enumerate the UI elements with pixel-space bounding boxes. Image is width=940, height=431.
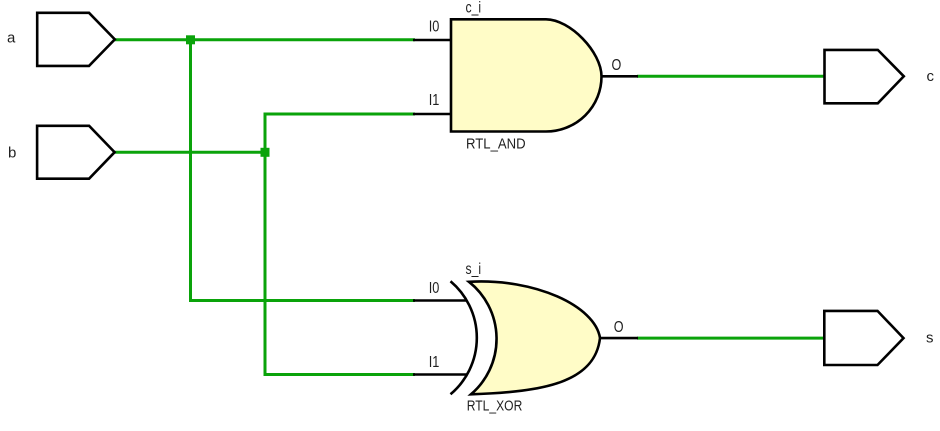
svg-text:a: a [7,30,16,47]
XOR gate s_i input arc [451,281,477,394]
svg-text:s_i: s_i [466,261,482,278]
svg-text:I0: I0 [429,280,440,297]
AND gate c_i pin stub O [601,75,638,78]
wire a to AND I0 [114,38,415,41]
AND gate c_i body [451,19,602,131]
svg-text:I1: I1 [429,92,440,109]
svg-text:O: O [612,57,622,74]
svg-text:I0: I0 [429,19,440,36]
junction A [186,35,195,44]
output port s [824,311,903,365]
output port c [825,50,904,103]
input port a [37,13,115,66]
svg-text:RTL_XOR: RTL_XOR [467,397,523,414]
svg-text:RTL_AND: RTL_AND [466,136,526,153]
XOR gate s_i pin stub O [598,337,638,340]
XOR gate s_i pin stub I1 [413,373,467,376]
wire b to junction B [114,151,267,154]
svg-text:b: b [8,145,16,162]
svg-text:c: c [927,68,935,85]
svg-text:O: O [614,319,624,336]
svg-text:s: s [926,329,934,346]
wire AND O to port c [637,75,825,78]
wire vertical from junction A down [189,40,192,301]
AND gate c_i pin stub I0 [413,39,452,42]
input port b [37,126,115,179]
wire horizontal to XOR I0 [189,299,415,302]
wire horizontal to AND I1 [264,113,416,116]
junction B [261,148,270,157]
wire vertical junction B up-down [264,114,267,375]
wire XOR O to port s [637,337,825,340]
wire horizontal to XOR I1 [264,373,416,376]
svg-text:I1: I1 [429,354,440,371]
XOR gate s_i body [469,281,600,394]
AND gate c_i pin stub I1 [413,113,452,116]
svg-text:c_i: c_i [466,0,482,16]
XOR gate s_i pin stub I0 [413,299,467,302]
